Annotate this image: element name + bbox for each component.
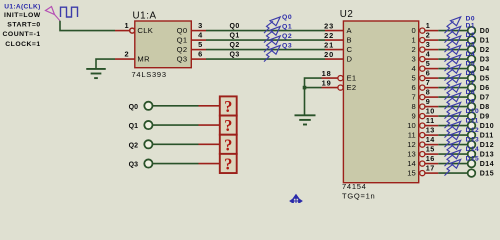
wire D12 [438, 144, 467, 146]
svg-text:B: B [347, 35, 352, 44]
svg-text:E1: E1 [347, 73, 357, 82]
svg-text:D11: D11 [480, 132, 494, 139]
svg-text:21: 21 [324, 41, 334, 50]
svg-text:D6: D6 [466, 70, 475, 77]
wire Q3 [206, 58, 325, 60]
svg-text:?: ? [224, 97, 232, 116]
logic probe terminal D8 [468, 103, 476, 111]
svg-text:CLK: CLK [137, 26, 153, 35]
U2 pin 5 (output 4) [420, 66, 425, 71]
svg-text:D12: D12 [466, 127, 480, 134]
svg-text:D14: D14 [480, 161, 495, 168]
svg-text:2: 2 [411, 45, 415, 54]
svg-text:E2: E2 [347, 83, 357, 92]
voltage probe marker D7 [445, 88, 454, 100]
logic state indicator box Q1 [220, 116, 237, 135]
svg-text:Q2: Q2 [282, 33, 292, 40]
svg-text:D13: D13 [480, 151, 495, 158]
wire D15 [438, 172, 467, 174]
svg-text:2: 2 [426, 31, 431, 40]
svg-text:10: 10 [426, 107, 435, 116]
U2 pin 15 (output 13) [420, 152, 425, 157]
wire D8 [438, 106, 467, 108]
svg-text:D2: D2 [480, 47, 490, 54]
svg-text:0: 0 [411, 26, 415, 35]
svg-text:74154: 74154 [342, 182, 367, 191]
svg-text:11: 11 [426, 116, 435, 125]
voltage probe marker D15 [445, 164, 454, 176]
svg-text:D0: D0 [466, 16, 475, 23]
svg-text:CLOCK=1: CLOCK=1 [5, 41, 40, 48]
svg-text:20: 20 [324, 50, 334, 59]
svg-text:Q3: Q3 [129, 162, 138, 169]
U2 pin 4 (output 3) [420, 57, 425, 62]
logic probe terminal D11 [468, 131, 476, 139]
logic probe terminal D15 [468, 169, 476, 177]
svg-text:5: 5 [198, 40, 202, 49]
logic probe terminal D9 [468, 112, 476, 120]
voltage probe marker Q0 [264, 21, 273, 33]
svg-text:D1: D1 [466, 23, 475, 30]
voltage probe marker D14 [445, 154, 454, 166]
svg-text:?: ? [224, 135, 232, 154]
svg-text:18: 18 [322, 69, 332, 78]
U2 pin 22 (input B) [325, 39, 343, 41]
wire Q2 to indicator [153, 143, 199, 145]
svg-text:D3: D3 [480, 56, 490, 63]
svg-text:MR: MR [137, 54, 150, 63]
voltage probe marker D12 [445, 135, 454, 147]
svg-text:D6: D6 [480, 85, 490, 92]
wire MR to ground [96, 59, 115, 68]
wire D7 [438, 96, 467, 98]
terminal Q3 [144, 159, 152, 167]
svg-text:74LS393: 74LS393 [132, 70, 167, 79]
U2 pin 8 (output 7) [420, 95, 425, 100]
wire D13 [438, 153, 467, 155]
U2 pin 14 (output 12) [420, 142, 425, 147]
wire D14 [438, 163, 467, 165]
voltage probe marker Q3 [264, 50, 273, 62]
svg-text:D4: D4 [480, 66, 490, 73]
wire Q3 to indicator [153, 163, 199, 165]
svg-text:D15: D15 [466, 156, 480, 163]
svg-text:D9: D9 [480, 113, 490, 120]
U2 pin 23 (input A) [325, 30, 343, 32]
svg-text:Q3: Q3 [282, 42, 292, 49]
origin marker [290, 195, 302, 204]
logic probe terminal D4 [468, 65, 476, 73]
wire D0 [438, 30, 467, 32]
voltage probe marker D0 [445, 21, 454, 33]
svg-text:D14: D14 [466, 146, 480, 153]
voltage probe marker D13 [445, 145, 454, 157]
IC U2 body 74154 [343, 21, 418, 183]
voltage probe marker D6 [445, 78, 454, 90]
wire D3 [438, 58, 467, 60]
logic probe terminal D1 [468, 36, 476, 44]
terminal Q2 [144, 140, 152, 148]
indicator pin Q1 [199, 124, 220, 126]
svg-text:6: 6 [198, 50, 202, 59]
svg-text:Q2: Q2 [129, 142, 138, 149]
voltage probe marker D4 [445, 59, 454, 71]
svg-text:Q0: Q0 [177, 26, 188, 35]
logic probe terminal D3 [468, 55, 476, 63]
U2 pin 16 (output 14) [420, 161, 425, 166]
svg-text:14: 14 [426, 135, 435, 144]
svg-text:15: 15 [407, 168, 415, 177]
svg-text:INIT=LOW: INIT=LOW [4, 12, 41, 19]
indicator pin Q3 [199, 163, 220, 165]
svg-text:Q1: Q1 [129, 123, 138, 130]
svg-text:C: C [347, 45, 353, 54]
svg-text:D7: D7 [480, 94, 490, 101]
svg-text:19: 19 [322, 78, 332, 87]
svg-text:D0: D0 [480, 28, 490, 35]
svg-text:D7: D7 [466, 80, 475, 87]
svg-text:U2: U2 [340, 9, 354, 20]
wire D4 [438, 68, 467, 70]
U2 pin 2 (output 1) [420, 38, 425, 43]
svg-text:13: 13 [407, 149, 415, 158]
svg-text:16: 16 [426, 154, 435, 163]
svg-text:3: 3 [411, 54, 415, 63]
svg-text:U1:A(CLK): U1:A(CLK) [4, 3, 40, 10]
svg-text:U1:A: U1:A [133, 11, 157, 22]
clock generator symbol [46, 7, 55, 15]
junction E2 [303, 86, 307, 90]
logic probe terminal D12 [468, 141, 476, 149]
logic probe terminal D6 [468, 84, 476, 92]
U2 pin 10 (output 9) [420, 114, 425, 119]
wire generator to CLK [60, 21, 115, 31]
svg-text:D5: D5 [480, 75, 490, 82]
logic probe terminal D5 [468, 74, 476, 82]
U1 pin 2 (MR) [115, 58, 135, 60]
logic probe terminal D0 [468, 27, 476, 35]
svg-text:9: 9 [426, 97, 431, 106]
svg-text:4: 4 [426, 50, 431, 59]
voltage probe marker D1 [445, 31, 454, 43]
terminal Q0 [144, 102, 152, 110]
svg-text:D: D [347, 54, 353, 63]
wire D9 [438, 115, 467, 117]
U1 pin 5 (Q2) [191, 49, 206, 51]
wire D11 [438, 134, 467, 136]
ground (U2 enables) [295, 114, 316, 116]
svg-text:D4: D4 [466, 51, 475, 58]
svg-text:D2: D2 [466, 32, 475, 39]
logic probe terminal D7 [468, 93, 476, 101]
svg-text:Q3: Q3 [230, 52, 240, 59]
U1 pin 4 (Q1) [191, 39, 206, 41]
logic probe terminal D10 [468, 122, 476, 130]
svg-text:D8: D8 [480, 104, 490, 111]
svg-text:6: 6 [411, 83, 415, 92]
svg-text:23: 23 [324, 22, 334, 31]
wire D1 [438, 39, 467, 41]
U2 pin 20 (input D) [325, 58, 343, 60]
svg-text:1: 1 [125, 21, 129, 30]
svg-text:D3: D3 [466, 42, 475, 49]
indicator pin Q0 [199, 105, 220, 107]
U1 pin 1 (CLK) [115, 30, 130, 32]
wire Q1 [206, 39, 325, 41]
svg-text:3: 3 [426, 40, 431, 49]
svg-text:5: 5 [426, 59, 431, 68]
voltage probe marker D5 [445, 69, 454, 81]
svg-text:D10: D10 [466, 108, 480, 115]
wire Q1 to indicator [153, 124, 199, 126]
svg-text:D15: D15 [480, 170, 495, 177]
svg-text:Q2: Q2 [177, 45, 188, 54]
svg-text:5: 5 [411, 73, 415, 82]
svg-text:7: 7 [426, 78, 431, 87]
svg-text:D8: D8 [466, 89, 475, 96]
svg-text:10: 10 [407, 121, 415, 130]
U2 pin 21 (input C) [325, 49, 343, 51]
wire Q0 to indicator [153, 105, 199, 107]
U1 pin 6 (Q3) [191, 58, 206, 60]
svg-text:A: A [347, 26, 353, 35]
svg-text:Q0: Q0 [230, 23, 240, 30]
voltage probe marker Q2 [264, 40, 273, 52]
voltage probe marker D11 [445, 126, 454, 138]
svg-text:D1: D1 [480, 37, 490, 44]
svg-text:START=0: START=0 [7, 22, 40, 29]
svg-text:?: ? [224, 154, 232, 173]
logic probe terminal D14 [468, 160, 476, 168]
logic probe terminal D2 [468, 46, 476, 54]
U2 pin 1 (output 0) [420, 28, 425, 33]
svg-text:12: 12 [407, 140, 415, 149]
svg-text:D9: D9 [466, 99, 475, 106]
svg-text:Q1: Q1 [282, 23, 292, 30]
svg-text:D10: D10 [480, 123, 495, 130]
voltage probe marker D8 [445, 97, 454, 109]
U2 pin 11 (output 10) [420, 123, 425, 128]
svg-text:13: 13 [426, 126, 435, 135]
wire D5 [438, 77, 467, 79]
svg-text:8: 8 [411, 102, 415, 111]
voltage probe marker D2 [445, 40, 454, 52]
svg-text:D13: D13 [466, 137, 480, 144]
svg-text:Q3: Q3 [177, 54, 188, 63]
svg-text:8: 8 [426, 88, 431, 97]
U2 pin 18 (enable E1) [322, 77, 339, 79]
svg-text:Q0: Q0 [129, 104, 138, 111]
IC U1:A body 74LS393 [135, 21, 192, 68]
svg-text:9: 9 [411, 111, 415, 120]
terminal Q1 [144, 121, 152, 129]
U2 pin 9 (output 8) [420, 104, 425, 109]
svg-text:D11: D11 [466, 118, 479, 125]
U2 pin 7 (output 6) [420, 85, 425, 90]
wire D2 [438, 49, 467, 51]
svg-text:4: 4 [198, 31, 203, 40]
svg-text:1: 1 [411, 35, 415, 44]
svg-text:COUNT=-1: COUNT=-1 [3, 31, 41, 38]
ground (U1 MR) [86, 68, 106, 70]
wire E1/E2 to ground [305, 78, 322, 115]
voltage probe marker Q1 [264, 31, 273, 43]
U2 pin 19 (enable E2) [322, 87, 339, 89]
wire D10 [438, 125, 467, 127]
svg-text:Q0: Q0 [282, 14, 292, 21]
U2 pin 6 (output 5) [420, 76, 425, 81]
svg-text:2: 2 [125, 50, 129, 59]
svg-text:Q1: Q1 [177, 35, 188, 44]
svg-text:D5: D5 [466, 61, 475, 68]
logic state indicator box Q3 [220, 154, 237, 173]
U1 pin 3 (Q0) [191, 30, 206, 32]
voltage probe marker D3 [445, 50, 454, 62]
svg-text:17: 17 [426, 164, 435, 173]
svg-text:7: 7 [411, 92, 415, 101]
logic probe terminal D13 [468, 150, 476, 158]
svg-text:1: 1 [426, 21, 431, 30]
svg-text:6: 6 [426, 69, 431, 78]
svg-text:22: 22 [324, 31, 334, 40]
svg-text:15: 15 [426, 145, 435, 154]
logic state indicator box Q0 [220, 96, 237, 115]
clock waveform icon [61, 7, 78, 17]
svg-text:11: 11 [408, 130, 416, 139]
svg-text:D12: D12 [480, 142, 495, 149]
voltage probe marker D10 [445, 116, 454, 128]
U2 pin 13 (output 11) [420, 133, 425, 138]
svg-text:?: ? [224, 116, 232, 135]
logic state indicator box Q2 [220, 135, 237, 154]
wire D6 [438, 87, 467, 89]
svg-text:Q2: Q2 [230, 42, 240, 49]
svg-text:TGQ=1n: TGQ=1n [342, 192, 375, 201]
U2 pin 3 (output 2) [420, 47, 425, 52]
svg-text:3: 3 [198, 21, 202, 30]
U2 pin 17 (output 15) [420, 171, 425, 176]
voltage probe marker D9 [445, 107, 454, 119]
wire Q0 [206, 30, 325, 32]
svg-text:4: 4 [411, 64, 415, 73]
indicator pin Q2 [199, 143, 220, 145]
svg-text:Q1: Q1 [230, 33, 240, 40]
svg-text:14: 14 [407, 159, 415, 168]
wire Q2 [206, 49, 325, 51]
